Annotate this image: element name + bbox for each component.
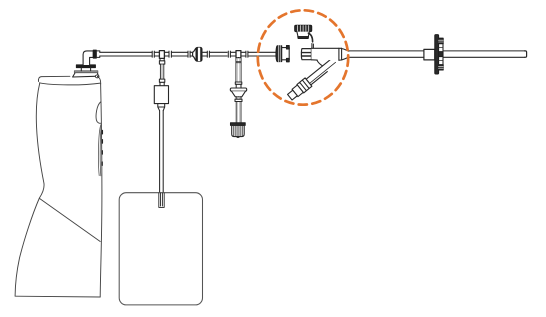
bottle cap — [73, 71, 99, 78]
tube short into filter — [190, 52, 193, 56]
male luer knurled ring — [276, 45, 282, 62]
stopcock right taper — [342, 49, 349, 60]
bottle side nubs — [101, 131, 103, 166]
protective cap skirt — [297, 32, 310, 39]
highlight dashed circle — [258, 10, 348, 104]
flange plate 1 — [435, 35, 439, 74]
bottle top rim front line — [39, 83, 100, 85]
tube stub after collar — [96, 51, 100, 58]
tube flange to end — [443, 51, 525, 57]
bag — [119, 193, 202, 305]
main tube segment filter to collar — [201, 52, 207, 56]
stopcock barrel — [311, 48, 341, 60]
cap tether strap — [308, 33, 312, 42]
stopcock tether stub — [312, 44, 314, 49]
tube short T2 left — [230, 52, 236, 56]
funnel body — [232, 91, 246, 97]
knurled end cap rim — [231, 123, 246, 126]
bottle side D bump — [96, 102, 101, 124]
T1 down collar — [159, 61, 164, 64]
bottle top rim back line right segment — [95, 76, 101, 84]
tube chamber to bag — [160, 111, 164, 193]
tube stopcock to hub — [349, 51, 424, 57]
spike shaft below disc — [81, 68, 90, 71]
inline filter — [193, 48, 202, 62]
bottle body — [15, 83, 102, 297]
branch ribs — [297, 78, 312, 93]
T2 small collar — [235, 82, 242, 84]
cap spout — [95, 75, 99, 78]
T1 lower collar — [159, 79, 164, 82]
main tube segment T1 to filter — [171, 52, 188, 56]
male luer body — [282, 46, 290, 62]
bottle side slit strip — [98, 125, 101, 176]
cap top gray bar — [74, 71, 98, 73]
drip chamber — [160, 82, 164, 85]
stopcock female luer port — [301, 49, 311, 60]
spike disc — [76, 65, 95, 68]
protective cap knurled top — [295, 25, 312, 31]
tube funnel to cap — [236, 97, 241, 123]
bottle top rim back line left segment — [38, 76, 69, 81]
elbow black collar — [93, 50, 96, 58]
collar left of filter — [188, 51, 190, 57]
flange valve column — [438, 38, 443, 70]
collar left of T1 — [152, 51, 154, 57]
funnel flange — [230, 88, 246, 91]
main tube segment elbow to T1 — [100, 52, 152, 56]
tube short T1 right — [164, 52, 169, 56]
T2 junction body — [236, 51, 241, 58]
branch end tip — [288, 90, 298, 100]
branch fillet — [317, 60, 323, 66]
collar right of T2 — [246, 51, 248, 57]
knurled end cap body — [232, 125, 245, 137]
small collar below funnel — [235, 99, 242, 101]
main tube segment to T2 — [209, 52, 227, 56]
collar left of T2 — [228, 51, 230, 57]
elbow connector — [83, 51, 93, 65]
hub block — [424, 49, 435, 60]
branch mid block — [292, 85, 303, 97]
chamber neck — [158, 104, 165, 111]
main tube segment T2 to luer — [248, 52, 276, 56]
T1 junction body — [159, 51, 164, 59]
tube end cap — [525, 51, 527, 57]
T1 down neck tube — [160, 64, 163, 79]
bottle crease line — [40, 199, 101, 242]
collar right of T1 — [169, 51, 171, 57]
bag port — [159, 193, 164, 207]
tube short T1 left — [154, 52, 159, 56]
T2 down tube upper — [236, 58, 241, 82]
T1 down stub — [160, 58, 164, 60]
tube short T2 right — [241, 52, 246, 56]
collar right of filter — [207, 51, 209, 57]
stopcock branch — [286, 55, 340, 101]
